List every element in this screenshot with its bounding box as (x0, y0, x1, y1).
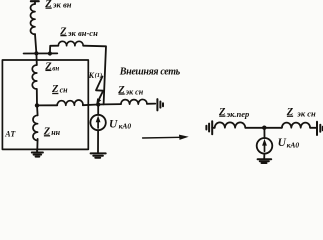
box AT (2, 60, 88, 149)
wire (50, 46, 58, 54)
svg-text:вн: вн (52, 65, 59, 73)
svg-text:нн: нн (51, 128, 60, 137)
wire (83, 46, 106, 105)
junction dot (48, 51, 52, 55)
wire (35, 53, 37, 65)
inductor Z_эк_сн (3 bumps up) (121, 99, 147, 104)
wire (36, 139, 38, 150)
junction dot fault node (96, 102, 100, 106)
svg-text:К: К (88, 71, 95, 80)
source U_кА0 circle (90, 115, 105, 130)
source arrow up (97, 120, 99, 128)
wire (263, 128, 265, 138)
svg-text:кА0: кА0 (119, 122, 132, 131)
wire (36, 105, 39, 115)
wire (97, 130, 99, 152)
inductor Z_эк_вн (4 bumps left) (31, 4, 36, 34)
label Z вн (44, 61, 59, 72)
svg-text:U: U (278, 137, 287, 149)
label Z нн (43, 127, 61, 138)
system terminal left of right circuit (206, 121, 212, 134)
SN bus line (37, 104, 57, 106)
wire (310, 127, 316, 129)
label Z эк вн-сн (59, 26, 98, 38)
inductor Z_сн (3 bumps up) (57, 100, 83, 105)
ground AT neutral (32, 149, 43, 156)
inductor Z_нн (3 bumps left) (33, 115, 38, 140)
label Z эк сн (right) (286, 107, 316, 119)
wire (245, 127, 282, 129)
fault lightning arrow K1 (96, 77, 103, 100)
inductor Z_эк_сн right (3 bumps up) (282, 123, 310, 128)
wire source lead (97, 105, 99, 115)
svg-text:сн: сн (60, 85, 69, 94)
svg-text:эк сн: эк сн (125, 87, 144, 96)
label U кА0 (109, 119, 131, 131)
arrow to simplified circuit (143, 136, 180, 139)
junction dot (34, 51, 38, 55)
svg-text:эк.пер: эк.пер (226, 109, 250, 119)
svg-text:U: U (109, 119, 118, 131)
wire (34, 1, 36, 4)
system terminal right (rotated ground) (157, 99, 163, 110)
system terminal right of right circuit (317, 122, 323, 135)
junction dot (35, 103, 39, 107)
inductor Z_эк_вн-сн (3 bumps up) (58, 41, 83, 45)
svg-text:Внешняя сеть: Внешняя сеть (119, 67, 181, 78)
wire (35, 34, 36, 53)
svg-text:(1): (1) (95, 72, 103, 79)
ground under source right (258, 159, 272, 163)
ground under source 1 (91, 153, 106, 157)
inductor Z_эк.пер (3 bumps up) (215, 122, 246, 127)
wire (263, 154, 265, 159)
label Z эк вн (44, 0, 72, 10)
node HV bus line (24, 52, 58, 54)
svg-text:эк сн: эк сн (296, 109, 316, 119)
system terminal top (31, 0, 39, 2)
svg-text:эк вн-сн: эк вн-сн (67, 28, 98, 38)
wire (83, 104, 121, 105)
wire (147, 103, 155, 105)
source U_кА0 circle (right) (257, 138, 273, 154)
inductor Z_вн (3 bumps left) (32, 65, 37, 89)
source arrow up (264, 144, 266, 152)
svg-text:эк вн: эк вн (52, 0, 72, 9)
label U кА0 (right) (278, 137, 300, 149)
junction dot (262, 126, 266, 130)
svg-text:АТ: АТ (4, 130, 16, 139)
svg-text:кА0: кА0 (287, 140, 300, 149)
wire (212, 127, 215, 129)
label Z эк сн (117, 85, 143, 97)
label Z сн (51, 84, 68, 95)
wire (36, 89, 38, 105)
label Z эк.пер (218, 107, 249, 119)
